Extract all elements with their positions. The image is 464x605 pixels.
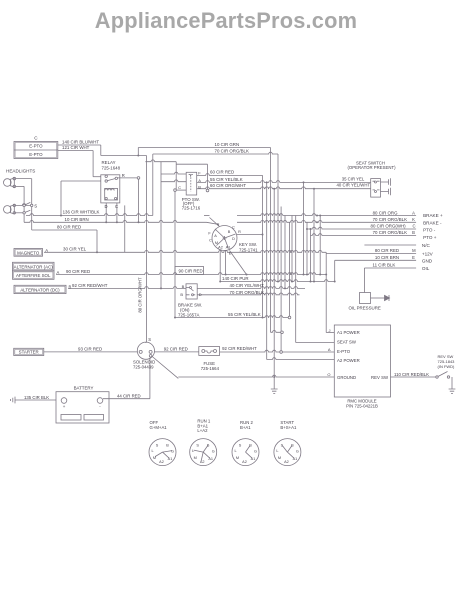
svg-text:L: L bbox=[276, 449, 278, 453]
svg-text:B: B bbox=[69, 285, 72, 290]
svg-text:AppliancePartsPros.com: AppliancePartsPros.com bbox=[95, 8, 357, 33]
svg-text:A: A bbox=[198, 178, 201, 183]
svg-text:60 CIR ORG/WHT: 60 CIR ORG/WHT bbox=[210, 183, 246, 188]
svg-text:P/N 725-04221B: P/N 725-04221B bbox=[346, 404, 378, 409]
svg-text:10 CIR BRN: 10 CIR BRN bbox=[65, 217, 89, 222]
svg-text:90 CIR RED: 90 CIR RED bbox=[66, 269, 90, 274]
svg-text:135 CIR BLK: 135 CIR BLK bbox=[24, 395, 49, 400]
svg-text:M: M bbox=[412, 248, 416, 253]
svg-text:80 CIR ORG(WH): 80 CIR ORG(WH) bbox=[371, 224, 407, 229]
svg-text:G: G bbox=[212, 450, 215, 454]
svg-text:725-04439: 725-04439 bbox=[133, 365, 154, 370]
svg-text:M: M bbox=[215, 241, 218, 245]
svg-text:M: M bbox=[194, 456, 197, 460]
svg-text:70 CIR ORG/BLK: 70 CIR ORG/BLK bbox=[215, 148, 249, 153]
svg-text:121 CIR WHT: 121 CIR WHT bbox=[62, 145, 90, 150]
svg-text:A1: A1 bbox=[251, 457, 256, 461]
svg-text:110 CIR RED/BLK: 110 CIR RED/BLK bbox=[394, 372, 429, 377]
svg-text:L: L bbox=[151, 449, 153, 453]
svg-text:B: B bbox=[412, 230, 415, 235]
svg-text:A2 POWER: A2 POWER bbox=[337, 358, 360, 363]
svg-text:E-PTO: E-PTO bbox=[337, 349, 351, 354]
svg-text:BRAKE -: BRAKE - bbox=[423, 220, 442, 225]
svg-text:E: E bbox=[229, 252, 232, 256]
svg-text:BRAKE +: BRAKE + bbox=[423, 213, 443, 218]
svg-text:A1: A1 bbox=[226, 246, 231, 250]
svg-text:A: A bbox=[57, 270, 60, 275]
svg-text:KEY SW.: KEY SW. bbox=[239, 242, 257, 247]
svg-text:40 CIR YEL/WHT: 40 CIR YEL/WHT bbox=[230, 283, 265, 288]
svg-text:S: S bbox=[196, 444, 199, 448]
svg-text:93 CIR RED: 93 CIR RED bbox=[78, 346, 102, 351]
svg-text:11 CIR BLK: 11 CIR BLK bbox=[373, 263, 396, 268]
svg-text:R: R bbox=[122, 173, 125, 178]
svg-text:B: B bbox=[228, 230, 231, 234]
svg-text:A2: A2 bbox=[200, 460, 205, 464]
svg-text:30 CIR YEL: 30 CIR YEL bbox=[63, 247, 87, 252]
svg-text:C: C bbox=[115, 204, 118, 209]
svg-text:C: C bbox=[209, 239, 212, 243]
svg-text:G+M+A1: G+M+A1 bbox=[150, 425, 168, 430]
svg-text:S: S bbox=[156, 444, 159, 448]
svg-text:O: O bbox=[327, 372, 330, 377]
svg-text:HEADLIGHTS: HEADLIGHTS bbox=[6, 168, 35, 173]
svg-text:725-1657A: 725-1657A bbox=[178, 313, 200, 318]
svg-text:136 CIR WHT/BLK: 136 CIR WHT/BLK bbox=[63, 210, 100, 215]
svg-text:G: G bbox=[254, 450, 257, 454]
svg-text:+12V: +12V bbox=[422, 251, 434, 256]
svg-text:A2: A2 bbox=[159, 460, 164, 464]
svg-text:10 CIR GRN: 10 CIR GRN bbox=[215, 142, 240, 147]
svg-text:OIL PRESSURE: OIL PRESSURE bbox=[349, 305, 381, 310]
svg-text:A1: A1 bbox=[168, 457, 173, 461]
svg-text:A: A bbox=[214, 234, 217, 238]
svg-text:GROUND: GROUND bbox=[337, 375, 356, 380]
svg-text:E-PTO: E-PTO bbox=[29, 144, 43, 149]
svg-text:L: L bbox=[192, 449, 194, 453]
svg-text:92 CIR RED: 92 CIR RED bbox=[164, 346, 188, 351]
svg-text:55 CIR YEL/BLK: 55 CIR YEL/BLK bbox=[210, 177, 243, 182]
svg-text:B: B bbox=[166, 444, 169, 448]
svg-text:A1 POWER: A1 POWER bbox=[337, 330, 360, 335]
svg-text:C: C bbox=[232, 226, 235, 230]
svg-text:B: B bbox=[291, 444, 294, 448]
svg-text:GND: GND bbox=[422, 259, 433, 264]
svg-text:60 CIR RED: 60 CIR RED bbox=[210, 170, 234, 175]
svg-text:80 CIR ORG/WHT: 80 CIR ORG/WHT bbox=[138, 277, 143, 313]
svg-text:C: C bbox=[217, 223, 220, 227]
svg-text:L: L bbox=[234, 449, 236, 453]
svg-text:C: C bbox=[413, 224, 416, 229]
svg-text:70 CIR ORG/BLK: 70 CIR ORG/BLK bbox=[373, 230, 407, 235]
svg-text:140 CIR PUR: 140 CIR PUR bbox=[222, 276, 249, 281]
svg-text:MAGNETO: MAGNETO bbox=[17, 250, 40, 255]
svg-text:+: + bbox=[63, 404, 66, 409]
svg-text:725-1716: 725-1716 bbox=[182, 205, 201, 210]
svg-text:PTO -: PTO - bbox=[423, 228, 436, 233]
svg-text:L+A2: L+A2 bbox=[197, 428, 208, 433]
svg-text:A2: A2 bbox=[284, 460, 289, 464]
svg-text:92 CIR RED/WHT: 92 CIR RED/WHT bbox=[72, 283, 108, 288]
svg-text:92 CIR RED/WHT: 92 CIR RED/WHT bbox=[222, 346, 257, 351]
svg-text:B: B bbox=[182, 284, 185, 289]
svg-text:S: S bbox=[239, 444, 242, 448]
svg-text:B+A1: B+A1 bbox=[240, 425, 251, 430]
svg-text:PTO +: PTO + bbox=[423, 235, 437, 240]
svg-text:E-PTO: E-PTO bbox=[29, 152, 43, 157]
svg-text:E: E bbox=[412, 255, 415, 260]
svg-text:B+S+A1: B+S+A1 bbox=[280, 425, 297, 430]
svg-text:725-1648: 725-1648 bbox=[102, 165, 121, 170]
svg-text:C: C bbox=[178, 185, 181, 190]
svg-text:35 CIR YEL: 35 CIR YEL bbox=[342, 176, 365, 181]
svg-text:R: R bbox=[238, 230, 241, 234]
svg-text:B: B bbox=[249, 444, 252, 448]
svg-text:AFTERFIRE SOL: AFTERFIRE SOL bbox=[16, 273, 51, 278]
svg-text:140 CIR BLU/WHT: 140 CIR BLU/WHT bbox=[62, 140, 99, 145]
svg-text:OIL: OIL bbox=[422, 266, 430, 271]
svg-text:A: A bbox=[412, 210, 415, 215]
svg-text:A: A bbox=[328, 347, 331, 352]
svg-text:K: K bbox=[412, 217, 415, 222]
svg-text:J: J bbox=[329, 328, 331, 333]
svg-text:D: D bbox=[232, 237, 235, 241]
svg-text:D: D bbox=[105, 204, 108, 209]
svg-text:A1: A1 bbox=[208, 457, 213, 461]
svg-text:70 CIR ORG/BLK: 70 CIR ORG/BLK bbox=[230, 290, 264, 295]
svg-text:A1: A1 bbox=[293, 457, 298, 461]
svg-text:SEAT SW: SEAT SW bbox=[337, 339, 357, 344]
svg-text:G: G bbox=[296, 450, 299, 454]
svg-text:40 CIR YEL/WHT: 40 CIR YEL/WHT bbox=[337, 183, 371, 188]
svg-text:D: D bbox=[199, 292, 202, 297]
svg-text:55 CIR YEL/BLK: 55 CIR YEL/BLK bbox=[228, 312, 261, 317]
svg-text:80 CIR RED: 80 CIR RED bbox=[57, 224, 81, 229]
svg-text:725-1664: 725-1664 bbox=[201, 366, 220, 371]
svg-text:A: A bbox=[45, 248, 48, 253]
svg-text:B: B bbox=[180, 292, 183, 297]
svg-text:70 CIR ORG/BLK: 70 CIR ORG/BLK bbox=[373, 217, 407, 222]
svg-text:(OPERATOR PRESENT): (OPERATOR PRESENT) bbox=[347, 165, 396, 170]
svg-text:A2: A2 bbox=[242, 460, 247, 464]
svg-text:A2: A2 bbox=[218, 246, 223, 250]
svg-text:G: G bbox=[171, 450, 174, 454]
svg-text:ALTERNATOR (AC): ALTERNATOR (AC) bbox=[14, 265, 54, 270]
svg-text:REV SW: REV SW bbox=[371, 375, 389, 380]
svg-text:M: M bbox=[278, 456, 281, 460]
svg-text:M: M bbox=[153, 456, 156, 460]
svg-text:BATTERY: BATTERY bbox=[74, 386, 94, 391]
svg-text:STARTER: STARTER bbox=[19, 349, 39, 354]
svg-text:S: S bbox=[34, 203, 37, 208]
svg-text:(IN FWD): (IN FWD) bbox=[438, 364, 456, 369]
svg-text:10 CIR BRN: 10 CIR BRN bbox=[375, 255, 399, 260]
svg-text:B: B bbox=[198, 185, 201, 190]
svg-text:80 CIR ORG: 80 CIR ORG bbox=[373, 210, 398, 215]
svg-text:44 CIR RED: 44 CIR RED bbox=[117, 393, 141, 398]
svg-text:S: S bbox=[281, 444, 284, 448]
svg-text:N/C: N/C bbox=[422, 243, 431, 248]
svg-text:725-1741: 725-1741 bbox=[239, 247, 258, 252]
svg-text:ALTERNATOR (DC): ALTERNATOR (DC) bbox=[20, 288, 60, 293]
svg-text:90 CIR RED: 90 CIR RED bbox=[179, 269, 203, 274]
svg-text:M: M bbox=[236, 456, 239, 460]
svg-text:B: B bbox=[207, 444, 210, 448]
svg-text:S: S bbox=[148, 337, 151, 342]
svg-text:80 CIR RED: 80 CIR RED bbox=[375, 248, 399, 253]
